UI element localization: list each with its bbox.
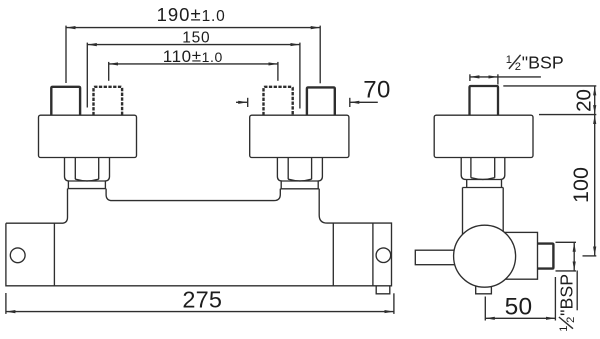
right hex nut facets xyxy=(288,158,311,181)
division line left end cap xyxy=(53,223,55,286)
label half BSP vertical xyxy=(557,274,578,332)
screw hole right xyxy=(376,248,391,263)
dim 190 right extension line xyxy=(319,26,321,84)
label half BSP top xyxy=(506,52,564,73)
division line right section xyxy=(332,223,334,286)
dim 275 right extension line xyxy=(393,293,395,314)
svg-text:"BSP: "BSP xyxy=(522,52,564,72)
dim 50 left extension line xyxy=(484,297,486,321)
right hex nut body xyxy=(277,158,322,182)
left inlet pipe dashed alternate xyxy=(94,87,123,115)
svg-text:150: 150 xyxy=(182,30,210,47)
right inlet pipe dashed alternate xyxy=(264,87,293,115)
svg-text:50: 50 xyxy=(505,293,533,320)
control knob circle xyxy=(454,225,516,287)
dim half BSP top right tick xyxy=(497,74,499,84)
extension line outlet centre xyxy=(583,255,597,257)
svg-text:2: 2 xyxy=(565,317,577,323)
left collar xyxy=(68,181,107,189)
svg-text:1: 1 xyxy=(506,54,512,66)
dim 70 left tick xyxy=(247,98,249,107)
side view hex nut body xyxy=(461,158,505,180)
dim 190 line xyxy=(66,27,320,29)
outlet block xyxy=(505,232,538,279)
dim 70 right arrow xyxy=(350,101,378,103)
side view inlet pipe xyxy=(470,86,499,115)
bottom tab xyxy=(476,286,492,294)
dim half BSP top leader xyxy=(498,76,541,78)
side view hex nut facets xyxy=(471,158,495,180)
dim 50 right extension line xyxy=(554,277,556,321)
dim 190 left extension line xyxy=(65,26,67,83)
extension line outlet top xyxy=(556,241,577,243)
temperature lever xyxy=(415,250,457,265)
svg-text:1: 1 xyxy=(558,326,570,332)
svg-text:275: 275 xyxy=(182,287,222,313)
side view body column xyxy=(463,188,504,241)
dim 20 line xyxy=(594,86,596,115)
dim 275 line xyxy=(6,311,394,313)
dim 150 left extension line xyxy=(86,43,88,108)
tab under right end xyxy=(376,286,390,294)
left hex nut body xyxy=(65,158,110,182)
outlet size dim line xyxy=(573,242,575,271)
front view valve body outline xyxy=(6,189,392,286)
svg-text:20: 20 xyxy=(573,89,596,112)
screw hole left xyxy=(10,248,25,263)
dim 70 left arrow xyxy=(236,101,248,103)
half BSP vertical leader xyxy=(576,271,578,311)
side view wall plate xyxy=(434,115,533,157)
left inlet pipe solid xyxy=(51,87,80,115)
extension line plate top xyxy=(539,114,596,116)
left wall plate xyxy=(39,115,137,157)
svg-text:110±1.0: 110±1.0 xyxy=(163,47,223,66)
dim 150 right extension line xyxy=(299,43,301,109)
dim 110 left extension line xyxy=(108,62,110,81)
svg-text:100: 100 xyxy=(569,167,593,203)
right collar xyxy=(280,181,319,189)
division line right end cap xyxy=(372,223,374,286)
right inlet pipe solid xyxy=(307,87,335,115)
extension line outlet bottom xyxy=(556,270,577,272)
outlet nipple xyxy=(538,244,554,269)
left hex nut facets xyxy=(75,158,98,181)
side view collar xyxy=(463,180,504,188)
dim 50 line xyxy=(485,317,555,319)
svg-text:190±1.0: 190±1.0 xyxy=(157,4,226,25)
right wall plate xyxy=(250,115,349,157)
dim 275 left extension line xyxy=(5,293,7,314)
dim 100 line xyxy=(594,115,596,256)
svg-text:2: 2 xyxy=(515,61,521,73)
extension line pipe top xyxy=(503,85,596,87)
dim 150 line xyxy=(87,44,300,46)
svg-text:70: 70 xyxy=(363,77,390,104)
dim 110 line xyxy=(109,63,278,65)
dim 70 right tick xyxy=(349,98,351,107)
dim half BSP top left tick xyxy=(469,74,471,81)
dim 110 right extension line xyxy=(277,62,279,81)
dim half BSP top double arrow xyxy=(470,76,498,78)
svg-text:"BSP: "BSP xyxy=(557,274,577,316)
